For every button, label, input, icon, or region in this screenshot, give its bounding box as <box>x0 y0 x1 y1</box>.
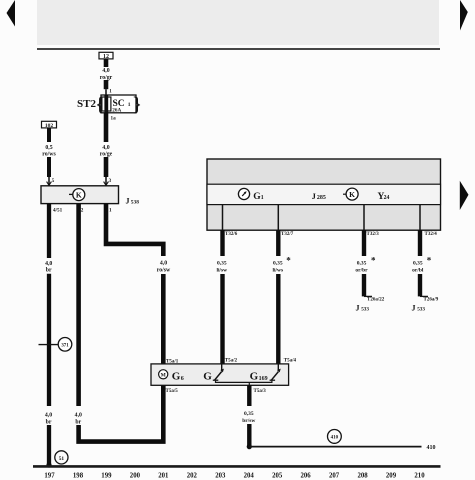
svg-text:K: K <box>76 191 82 200</box>
wire label 4,0 ro/ge <box>100 145 113 158</box>
svg-text:198: 198 <box>73 472 84 479</box>
svg-text:J: J <box>356 304 360 313</box>
wire label 0,5 ro/ws <box>42 145 56 158</box>
svg-text:26A: 26A <box>112 107 121 113</box>
svg-text:200: 200 <box>130 472 141 479</box>
svg-text:1: 1 <box>128 102 131 108</box>
svg-text:T5a/3: T5a/3 <box>254 389 267 394</box>
svg-text:0,35: 0,35 <box>413 261 423 267</box>
fuse ST2 SC1 26A <box>77 95 141 116</box>
svg-text:{: { <box>96 95 104 116</box>
svg-text:210: 210 <box>414 472 425 479</box>
svg-text:0,35: 0,35 <box>273 261 283 267</box>
svg-text:6: 6 <box>181 376 184 382</box>
svg-text:br: br <box>46 419 52 425</box>
node 410 <box>328 430 342 444</box>
svg-text:*: * <box>427 255 432 265</box>
fuel gauge G1 icon <box>238 188 249 199</box>
wire J538 pin 2 to G6 pin T5a/5 <box>79 204 164 442</box>
control unit J285 label <box>312 191 326 201</box>
svg-text:199: 199 <box>101 472 112 479</box>
wire J538 pin 4/51 to ground 51 <box>46 204 51 468</box>
svg-text:T32/3: T32/3 <box>367 232 380 237</box>
svg-text:ro/ge: ro/ge <box>100 151 113 157</box>
svg-text:4/51: 4/51 <box>53 208 63 214</box>
cluster internal wire stubs <box>223 205 421 231</box>
svg-text:1a: 1a <box>111 116 117 122</box>
right continuation arrow <box>460 181 469 210</box>
svg-text:371: 371 <box>61 344 69 349</box>
wire fuse to J538 pin 3 <box>104 113 109 186</box>
svg-text:197: 197 <box>44 472 55 479</box>
svg-text:51: 51 <box>59 456 65 462</box>
svg-text:ro/gr: ro/gr <box>100 75 113 81</box>
wire label 0,35 li/ws <box>272 256 291 274</box>
ground node 51 <box>55 451 68 464</box>
wire label 0,35 or/bl <box>412 255 432 273</box>
terminal box 12 <box>99 52 113 60</box>
header band <box>37 0 440 49</box>
svg-text:0,5: 0,5 <box>45 145 52 151</box>
wire T32/6 to G6 pin T5a/2 <box>220 230 224 364</box>
warning lamp K symbol <box>343 188 358 200</box>
svg-text:ro/ws: ro/ws <box>42 151 56 157</box>
svg-text:4,0: 4,0 <box>102 68 109 74</box>
svg-text:4,0: 4,0 <box>45 412 52 418</box>
sender G169 symbol <box>270 364 281 380</box>
svg-text:202: 202 <box>187 472 198 479</box>
svg-text:*: * <box>286 256 291 266</box>
sender G169 label <box>250 370 268 382</box>
svg-text:*: * <box>371 255 376 265</box>
svg-text:201: 201 <box>158 472 169 479</box>
component Y24 label <box>378 192 390 202</box>
svg-text:br/sw: br/sw <box>242 418 255 424</box>
svg-text:J: J <box>312 191 317 201</box>
wire T32/4 to T26a/9 <box>420 230 428 296</box>
svg-text:205: 205 <box>272 472 283 479</box>
bottom track rail <box>33 465 441 468</box>
control unit J538 <box>41 186 139 206</box>
svg-text:533: 533 <box>417 307 425 313</box>
svg-text:G: G <box>203 370 212 382</box>
wire label 0,35 or/br <box>355 255 376 273</box>
svg-text:4,0: 4,0 <box>160 261 167 267</box>
svg-text:J: J <box>126 197 130 206</box>
internal sender bus wire <box>216 381 272 386</box>
J538 pin 5 connector notch <box>47 182 52 186</box>
svg-text:G: G <box>172 370 181 382</box>
svg-text:24: 24 <box>384 195 390 201</box>
sender G symbol <box>213 364 224 380</box>
svg-text:1: 1 <box>109 208 112 214</box>
svg-text:or/bl: or/bl <box>412 268 424 274</box>
svg-text:T26a/22: T26a/22 <box>367 298 385 303</box>
svg-text:1: 1 <box>109 89 112 94</box>
svg-text:br: br <box>46 268 52 274</box>
wire label 4,0 br middle <box>75 412 82 425</box>
svg-text:538: 538 <box>131 200 139 206</box>
svg-text:0,35: 0,35 <box>244 411 254 417</box>
svg-text:4,0: 4,0 <box>75 412 82 418</box>
svg-text:285: 285 <box>317 195 326 201</box>
svg-text:410: 410 <box>427 445 436 451</box>
svg-text:203: 203 <box>215 472 226 479</box>
wire label 0,35 li/sw <box>216 261 227 274</box>
terminal box 102 <box>42 121 57 129</box>
gateway J533 label left <box>356 304 370 313</box>
svg-text:K: K <box>349 190 355 199</box>
svg-text:br: br <box>75 419 81 425</box>
svg-text:4,0: 4,0 <box>102 145 109 151</box>
svg-text:J: J <box>412 304 416 313</box>
svg-text:206: 206 <box>300 472 311 479</box>
wire J538 pin 1 to G6 pin T5a/1 <box>106 204 163 364</box>
gateway J533 label right <box>412 304 426 313</box>
wire T32/7 to G6 pin T5a/4 <box>276 230 280 364</box>
wire T5a/3 to node 410 <box>247 385 252 449</box>
svg-text:410: 410 <box>331 436 339 441</box>
svg-text:4,0: 4,0 <box>45 261 52 267</box>
svg-text:209: 209 <box>386 472 397 479</box>
left continuation arrow <box>7 0 16 27</box>
svg-text:ST2: ST2 <box>77 98 96 110</box>
svg-text:169: 169 <box>259 376 268 382</box>
wire terminal 102 to J538 pin 5 <box>47 128 51 186</box>
svg-text:T32/7: T32/7 <box>281 232 294 237</box>
svg-text:T5a/5: T5a/5 <box>166 389 179 394</box>
splice 371 <box>39 338 72 352</box>
svg-text:204: 204 <box>244 472 255 479</box>
wire label 0,35 br/sw <box>242 411 255 424</box>
svg-text:5: 5 <box>52 179 55 184</box>
svg-text:}: } <box>133 95 141 116</box>
svg-text:1: 1 <box>261 195 264 201</box>
instrument cluster box <box>207 159 441 230</box>
svg-text:T5a/4: T5a/4 <box>284 358 297 363</box>
top right continuation arrow <box>460 0 468 31</box>
wire from terminal 12 to fuse <box>104 59 109 96</box>
svg-text:T26a/9: T26a/9 <box>424 298 439 303</box>
svg-text:ro/sw: ro/sw <box>157 268 171 274</box>
svg-text:533: 533 <box>361 307 369 313</box>
svg-text:M: M <box>161 373 167 379</box>
svg-text:0,35: 0,35 <box>357 261 367 267</box>
wire label 4,0 ro/gr <box>100 68 113 81</box>
svg-text:or/br: or/br <box>355 268 368 274</box>
ground wire 410 <box>249 445 435 451</box>
svg-text:G: G <box>250 370 259 382</box>
track numbers 197-210 <box>44 472 425 479</box>
svg-text:0,35: 0,35 <box>217 261 227 267</box>
svg-text:208: 208 <box>357 472 368 479</box>
svg-text:li/sw: li/sw <box>216 268 227 274</box>
svg-text:T32/4: T32/4 <box>425 232 438 237</box>
J538 pin 3 connector notch <box>104 182 109 186</box>
svg-text:207: 207 <box>329 472 340 479</box>
fuel pump unit box G6 G G169 <box>151 364 289 385</box>
svg-text:li/ws: li/ws <box>272 268 283 274</box>
pump G6 label <box>172 370 184 382</box>
wire label 4,0 ro/sw <box>157 261 171 274</box>
gauge G1 label <box>253 192 264 202</box>
motor M symbol <box>159 370 168 379</box>
svg-text:T32/6: T32/6 <box>225 232 238 237</box>
wire label 4,0 br left <box>45 412 52 425</box>
svg-text:3: 3 <box>109 179 112 184</box>
svg-text:2: 2 <box>81 208 84 214</box>
svg-text:T5a/2: T5a/2 <box>225 358 238 363</box>
wire label 4,0 br upper <box>45 261 52 274</box>
wire T32/3 to T26a/22 <box>364 230 372 296</box>
